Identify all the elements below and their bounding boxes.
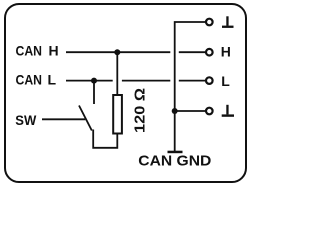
wire switch top stub	[93, 81, 95, 104]
svg-text:120 Ω: 120 Ω	[131, 88, 148, 133]
terminal circle bottom ground	[206, 108, 213, 115]
wire CAN H (left segment to junction and past, gap at bus crossing)	[66, 51, 205, 53]
junction CAN H / resistor	[114, 49, 120, 55]
svg-text:L: L	[48, 72, 57, 88]
wire switch bottom to resistor bottom	[93, 130, 117, 148]
svg-text:H: H	[221, 44, 231, 60]
ground symbol label bottom (perpendicular glyph)	[222, 105, 234, 117]
svg-text:CAN: CAN	[16, 72, 43, 88]
svg-text:CAN: CAN	[16, 43, 43, 59]
wire to bottom ground terminal	[175, 110, 206, 112]
wire SW pointer	[42, 118, 85, 120]
ground symbol CAN GND bar	[168, 151, 183, 154]
resistor R 120 Ohm	[113, 95, 122, 134]
svg-text:SW: SW	[15, 112, 37, 128]
switch SW blade	[79, 106, 92, 131]
ground bus wire	[175, 22, 206, 151]
svg-text:H: H	[49, 43, 59, 59]
svg-text:CAN GND: CAN GND	[138, 153, 211, 170]
wire CAN L (segments with gaps at resistor lead and bus crossings)	[66, 80, 205, 82]
terminal circle L	[206, 77, 213, 84]
junction ground bus / bottom ground terminal	[172, 108, 178, 114]
terminal circle H	[206, 49, 213, 56]
label CAN L	[16, 72, 57, 88]
label CAN H	[16, 43, 59, 59]
svg-text:L: L	[221, 73, 230, 89]
junction CAN L / switch	[91, 78, 97, 84]
wire resistor top lead	[116, 52, 118, 95]
ground symbol label top (perpendicular glyph)	[222, 16, 234, 28]
terminal circle top ground	[206, 19, 213, 26]
